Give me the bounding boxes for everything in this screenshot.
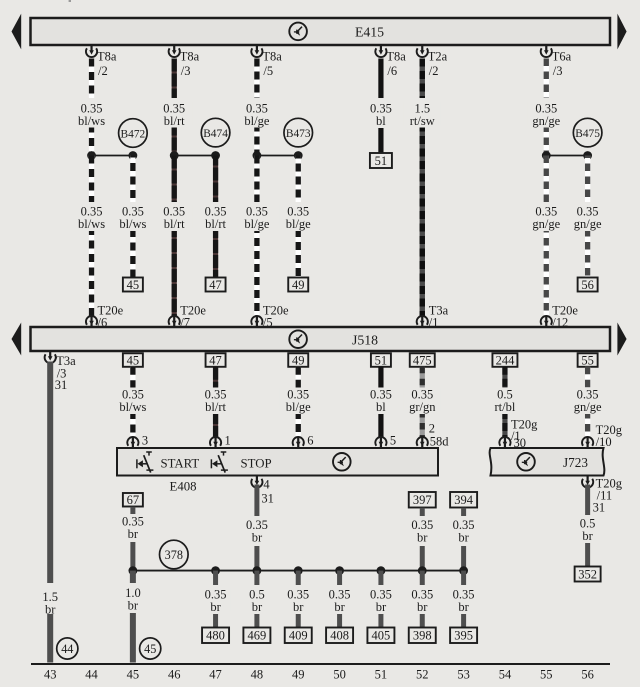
- svg-text:T8a: T8a: [180, 50, 200, 64]
- svg-text:6: 6: [307, 434, 313, 448]
- connection 44 ground: [57, 638, 78, 659]
- svg-text:br: br: [458, 600, 469, 614]
- svg-text:45: 45: [127, 353, 140, 367]
- connector T20e/6: [86, 304, 124, 330]
- svg-text:405: 405: [372, 629, 391, 643]
- label 1.5 br: [38, 590, 62, 617]
- svg-text:gn/ge: gn/ge: [532, 114, 560, 128]
- connector T20e/7: [169, 304, 207, 330]
- label 0.35 br track47: [200, 588, 230, 615]
- wire 0.35 gn/ge col55 lower: [544, 156, 549, 318]
- label 0.35 bl/ws col44: [73, 102, 110, 129]
- terminal box 67: [123, 493, 143, 507]
- svg-text:br: br: [210, 600, 221, 614]
- label 0.35 br from 397: [407, 518, 437, 545]
- label 0.35 gn/ge branch56: [569, 205, 606, 232]
- junction node col48: [253, 151, 262, 160]
- label START: [161, 456, 200, 470]
- svg-text:bl/ws: bl/ws: [119, 217, 146, 231]
- switch START contact: [137, 452, 154, 473]
- svg-text:B473: B473: [286, 128, 311, 140]
- connector T20e/5: [251, 304, 289, 330]
- label 1.0 br: [121, 586, 145, 613]
- connector T20e/12: [541, 304, 579, 330]
- junction node ground track48: [253, 566, 262, 575]
- svg-text:/2: /2: [429, 64, 439, 78]
- switch STOP contact: [211, 452, 228, 473]
- wire 0.5 br to 469: [254, 571, 259, 628]
- svg-text:55: 55: [540, 668, 553, 682]
- svg-text:br: br: [376, 600, 387, 614]
- wire 0.35 bl/rt branch47: [213, 156, 218, 278]
- wire 0.35 bl from T8a/6: [378, 59, 383, 154]
- svg-text:31: 31: [593, 501, 606, 515]
- svg-text:44: 44: [61, 642, 73, 656]
- svg-text:/5: /5: [263, 64, 273, 78]
- svg-text:54: 54: [499, 668, 512, 682]
- E415 right arrow: [617, 14, 626, 50]
- wire 0.35 br to 480: [213, 571, 218, 628]
- svg-text:51: 51: [375, 353, 388, 367]
- J723 direction symbol: [517, 453, 535, 471]
- terminal box 475 bottom: [410, 353, 435, 367]
- wire 0.35 gr/gn to E408: [420, 367, 425, 438]
- svg-text:46: 46: [168, 668, 181, 682]
- svg-text:408: 408: [330, 629, 349, 643]
- wire 0.5 br T20g11: [585, 485, 590, 567]
- label 0.35 bl/rt mid47: [197, 388, 234, 415]
- junction node branch45: [128, 151, 137, 160]
- terminal box 56 top: [578, 278, 598, 292]
- svg-text:397: 397: [413, 493, 432, 507]
- label 0.35 br from 394: [448, 518, 478, 545]
- svg-text:br: br: [128, 527, 139, 541]
- svg-text:56: 56: [581, 278, 594, 292]
- wire 0.35 gn/ge from T6a/3: [544, 59, 549, 156]
- svg-text:br: br: [417, 531, 428, 545]
- ground box 409: [285, 628, 312, 644]
- label 0.35 bl/ws mid45: [114, 388, 151, 415]
- ground box 398: [409, 628, 436, 644]
- svg-text:bl/rt: bl/rt: [164, 217, 185, 231]
- svg-text:gn/ge: gn/ge: [532, 217, 560, 231]
- svg-text:47: 47: [209, 278, 222, 292]
- svg-text:244: 244: [496, 353, 516, 367]
- label 0.35 bl mid51: [366, 388, 396, 415]
- label 0.35 br track53: [448, 588, 478, 615]
- wire 0.5 rt/bl to J723: [502, 367, 507, 438]
- control unit J723 box: [490, 448, 605, 476]
- terminal box 51: [370, 153, 392, 168]
- wire 0.35 br from 67: [130, 507, 135, 571]
- svg-text:47: 47: [209, 353, 222, 367]
- svg-text:T8a: T8a: [262, 50, 282, 64]
- ground box 395: [450, 628, 477, 644]
- svg-text:T6a: T6a: [552, 50, 572, 64]
- svg-text:49: 49: [292, 668, 305, 682]
- svg-text:B475: B475: [575, 128, 600, 140]
- svg-text:/3: /3: [553, 64, 563, 78]
- svg-text:J518: J518: [352, 333, 378, 348]
- terminal box 45 top: [123, 278, 143, 292]
- svg-text:br: br: [128, 599, 139, 613]
- connector T20g/10: [582, 423, 623, 449]
- connector T20g/11 below J723: [582, 475, 623, 515]
- wire 0.35 bl/ge col48 lower: [254, 156, 259, 318]
- svg-text:43: 43: [44, 668, 57, 682]
- svg-text:br: br: [252, 600, 263, 614]
- svg-text:/10: /10: [596, 435, 612, 449]
- svg-text:395: 395: [454, 629, 473, 643]
- svg-text:J723: J723: [563, 455, 588, 470]
- track numbers 43-56: [44, 668, 594, 682]
- label 0.35 gn/ge mid56: [569, 388, 606, 415]
- svg-text:49: 49: [292, 353, 305, 367]
- junction node ground track47: [211, 566, 220, 575]
- splice B472: [119, 119, 148, 148]
- label 0.35 gr/gn mid52: [404, 388, 441, 415]
- wire link 55-56: [546, 155, 587, 157]
- splice B473: [284, 118, 313, 147]
- svg-text:T2a: T2a: [428, 50, 448, 64]
- svg-text:gn/ge: gn/ge: [574, 217, 602, 231]
- svg-text:47: 47: [209, 668, 222, 682]
- svg-text:rt/sw: rt/sw: [410, 114, 435, 128]
- svg-text:br: br: [582, 529, 593, 543]
- wire 0.35 bl/ws to E408: [130, 367, 135, 438]
- svg-text:E408: E408: [170, 480, 197, 494]
- terminal box 49 top: [288, 278, 308, 292]
- junction node col44: [87, 151, 96, 160]
- splice B474: [201, 118, 230, 147]
- terminal box 397: [409, 492, 436, 508]
- junction node branch56: [583, 151, 592, 160]
- wire 1.5 rt/sw from T2a/2: [420, 59, 425, 318]
- connector T6a/3: [541, 44, 572, 78]
- label 0.5 rt/bl mid54: [486, 388, 523, 415]
- svg-text:3: 3: [142, 434, 148, 448]
- svg-text:T8a: T8a: [386, 50, 406, 64]
- svg-text:49: 49: [292, 278, 305, 292]
- label 0.35 br track51: [366, 588, 396, 615]
- ground bus wire: [133, 570, 464, 572]
- svg-text:bl/ws: bl/ws: [78, 114, 105, 128]
- connector T8a/6: [375, 44, 406, 78]
- svg-text:B472: B472: [121, 128, 146, 140]
- connector T2a/2: [417, 44, 448, 78]
- svg-text:58d: 58d: [430, 435, 450, 449]
- J518 direction symbol: [289, 330, 307, 348]
- svg-text:394: 394: [454, 493, 474, 507]
- wire 0.35 bl/ge from T8a/5: [254, 59, 259, 156]
- wire 0.35 bl/rt to E408: [213, 367, 218, 438]
- ground box 480: [202, 628, 229, 644]
- ground box 469: [243, 628, 270, 644]
- wire 0.35 br pin4: [254, 485, 259, 571]
- label 0.35 bl/ge col48 lower: [238, 205, 275, 232]
- svg-text:4: 4: [263, 478, 270, 492]
- E415 direction symbol: [289, 23, 307, 41]
- svg-text:5: 5: [390, 434, 396, 448]
- wire 0.35 bl/ge to E408: [296, 367, 301, 438]
- J518 right arrow: [617, 323, 626, 356]
- wire 0.35 bl/ws branch45: [130, 156, 135, 278]
- terminal box 352: [575, 567, 601, 582]
- junction node branch47: [211, 151, 220, 160]
- wire 1.5 br track43: [47, 362, 53, 663]
- bus bar J518 control unit: [31, 327, 611, 351]
- svg-text:rt/bl: rt/bl: [495, 400, 516, 414]
- svg-text:31: 31: [261, 492, 274, 506]
- svg-text:T8a: T8a: [97, 50, 117, 64]
- splice B475: [573, 118, 602, 147]
- connector pin 2 58d E408: [417, 422, 450, 450]
- wire 0.35 br to 405: [378, 571, 383, 628]
- junction node branch49: [294, 151, 303, 160]
- svg-text:48: 48: [251, 668, 264, 682]
- svg-text:480: 480: [206, 629, 225, 643]
- terminal box 51 bottom: [371, 353, 391, 367]
- svg-text:51: 51: [375, 668, 388, 682]
- terminal box 45 bottom: [123, 353, 143, 367]
- svg-text:br: br: [458, 531, 469, 545]
- wire 0.35 bl/ge branch49: [296, 156, 301, 278]
- svg-text:475: 475: [413, 353, 432, 367]
- wire 0.35 bl to E408: [378, 367, 383, 438]
- svg-text:br: br: [252, 531, 263, 545]
- wire link 46-47: [174, 155, 215, 157]
- junction node ground track49: [294, 566, 303, 575]
- track scale line: [31, 663, 610, 665]
- connector T3a/1: [417, 304, 449, 330]
- connector T8a/5: [251, 44, 282, 78]
- connector pin 3 E408: [127, 434, 148, 450]
- wire 0.35 br to 395: [461, 571, 466, 628]
- connector T8a/2: [86, 44, 117, 78]
- svg-text:B474: B474: [203, 128, 228, 140]
- svg-text:/2: /2: [98, 64, 108, 78]
- label 0.35 gn/ge col55 lower: [528, 205, 565, 232]
- svg-text:/3: /3: [181, 64, 191, 78]
- connector pin 5 E408: [375, 434, 396, 450]
- svg-text:br: br: [334, 600, 345, 614]
- svg-text:50: 50: [333, 668, 346, 682]
- label STOP: [241, 456, 272, 470]
- wire 0.35 br to 409: [296, 571, 301, 628]
- label 0.35 bl/rt col46 lower: [156, 205, 193, 232]
- wire link 44-45: [92, 155, 133, 157]
- connector pin 1 E408: [210, 434, 231, 450]
- label 0.35 bl/ws col44 lower: [73, 205, 110, 232]
- junction node ground track53: [459, 566, 468, 575]
- svg-text:469: 469: [248, 629, 267, 643]
- svg-text:51: 51: [375, 154, 388, 168]
- svg-text:55: 55: [581, 353, 594, 367]
- connector T8a/3: [169, 44, 200, 78]
- wire link 48-49: [257, 155, 298, 157]
- terminal box 49 bottom: [288, 353, 308, 367]
- svg-text:53: 53: [457, 668, 470, 682]
- svg-text:br: br: [45, 603, 56, 617]
- label 0.35 bl/rt col46: [156, 102, 193, 129]
- svg-text:352: 352: [578, 567, 597, 581]
- terminal box 244 bottom: [492, 353, 517, 367]
- switch unit E408 box: [117, 448, 438, 476]
- label 0.35 bl/ws branch45: [114, 205, 151, 232]
- svg-text:2: 2: [429, 422, 435, 436]
- junction node col46: [170, 151, 179, 160]
- connector T20g/1 pin 30: [499, 418, 538, 451]
- svg-text:bl/ge: bl/ge: [244, 217, 269, 231]
- bus bar E415: [31, 18, 611, 45]
- E415 left arrow: [12, 14, 22, 50]
- svg-text:bl/rt: bl/rt: [164, 114, 185, 128]
- terminal box 394: [450, 492, 477, 508]
- wire 0.35 bl/rt col46 lower: [172, 156, 177, 318]
- svg-text:398: 398: [413, 629, 432, 643]
- page edge tick: [69, 0, 71, 2]
- svg-text:/6: /6: [387, 64, 397, 78]
- svg-text:56: 56: [581, 668, 594, 682]
- label 0.35 br track52: [407, 588, 437, 615]
- label 0.35 bl/rt branch47: [197, 205, 234, 232]
- label 0.35 br pin4: [242, 518, 272, 545]
- connector pin 4 below E408: [251, 475, 274, 506]
- label 0.35 br track50: [324, 588, 354, 615]
- label 0.35 br from 67: [118, 515, 148, 542]
- E408 direction symbol: [333, 453, 351, 471]
- svg-text:52: 52: [416, 668, 429, 682]
- svg-text:1: 1: [225, 434, 231, 448]
- connector T3a/3: [45, 350, 76, 392]
- svg-text:bl/ws: bl/ws: [119, 400, 146, 414]
- wire 0.35 bl/ws from T8a/2: [89, 59, 94, 156]
- wire 0.35 br from 394: [461, 508, 466, 571]
- wire 1.0 br track45: [130, 571, 136, 663]
- svg-text:bl/ge: bl/ge: [286, 400, 311, 414]
- svg-text:67: 67: [127, 493, 140, 507]
- wire 0.35 bl/rt from T8a/3: [172, 59, 177, 156]
- label 0.5 br: [576, 517, 600, 544]
- terminal box 47 top: [206, 278, 226, 292]
- connection 45 ground: [140, 638, 161, 659]
- label 0.35 br track49: [283, 588, 313, 615]
- svg-text:br: br: [293, 600, 304, 614]
- svg-text:45: 45: [127, 668, 140, 682]
- svg-text:bl/ws: bl/ws: [78, 217, 105, 231]
- J518 left arrow: [12, 323, 22, 356]
- ground box 408: [326, 628, 353, 644]
- svg-text:bl/rt: bl/rt: [205, 400, 226, 414]
- wire 0.35 bl/ws col44 lower: [89, 156, 94, 318]
- label 0.35 bl/ge mid49: [280, 388, 317, 415]
- wire 0.35 br to 408: [337, 571, 342, 628]
- svg-text:bl/rt: bl/rt: [205, 217, 226, 231]
- label 0.5 br track48: [245, 588, 269, 615]
- junction node ground track50: [335, 566, 344, 575]
- label 0.35 bl/ge col48: [238, 102, 275, 129]
- label 0.35 gn/ge col55: [528, 102, 565, 129]
- label E408: [170, 480, 197, 494]
- svg-text:45: 45: [144, 642, 156, 656]
- junction node col55: [542, 151, 551, 160]
- connector pin 6 E408: [293, 434, 314, 450]
- wire 0.35 br to 398: [420, 571, 425, 628]
- svg-text:gn/ge: gn/ge: [574, 400, 602, 414]
- svg-text:bl: bl: [376, 114, 386, 128]
- junction node ground track45: [128, 566, 137, 575]
- svg-text:br: br: [417, 600, 428, 614]
- ground box 405: [367, 628, 394, 644]
- svg-text:378: 378: [165, 548, 183, 562]
- svg-text:44: 44: [85, 668, 98, 682]
- terminal box 55 bottom: [578, 353, 598, 367]
- junction node ground track52: [418, 566, 427, 575]
- label 0.35 bl/ge branch49: [280, 205, 317, 232]
- label 1.5 rt/sw col52: [404, 102, 441, 129]
- terminal box 47 bottom: [206, 353, 226, 367]
- svg-text:31: 31: [55, 378, 67, 392]
- wire 0.35 gn/ge to J723: [585, 367, 590, 438]
- svg-text:45: 45: [127, 278, 140, 292]
- svg-text:E415: E415: [355, 24, 384, 39]
- wire 0.35 br from 397: [420, 508, 425, 571]
- svg-text:gr/gn: gr/gn: [409, 400, 436, 414]
- svg-text:bl: bl: [376, 400, 386, 414]
- junction node ground track51: [377, 566, 386, 575]
- label 0.35 bl col51: [366, 102, 396, 129]
- svg-text:bl/ge: bl/ge: [286, 217, 311, 231]
- splice 378 label: [160, 540, 189, 569]
- wire 0.35 gn/ge branch56: [585, 156, 590, 278]
- svg-text:409: 409: [289, 629, 308, 643]
- svg-text:START: START: [161, 456, 200, 470]
- svg-text:bl/ge: bl/ge: [244, 114, 269, 128]
- svg-text:STOP: STOP: [241, 456, 272, 470]
